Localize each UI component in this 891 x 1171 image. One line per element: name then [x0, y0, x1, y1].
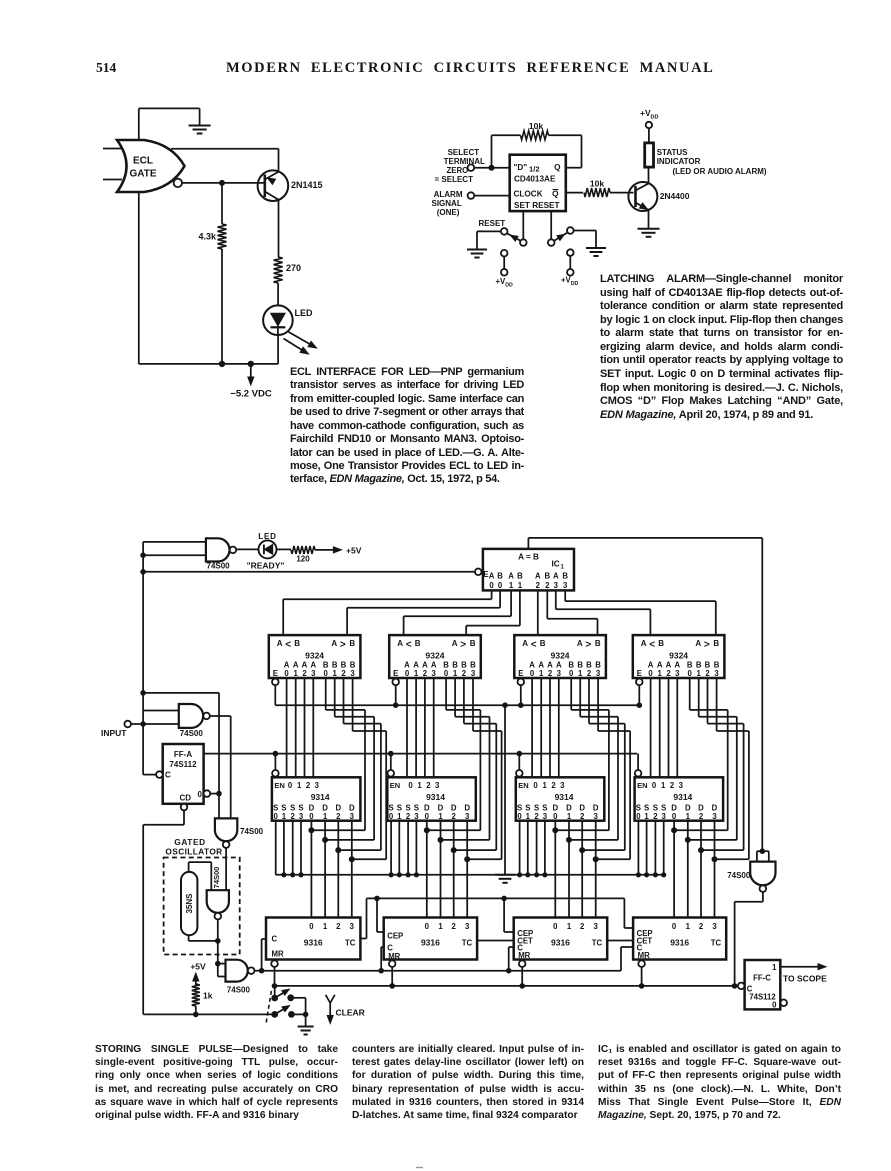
svg-text:A: A: [284, 660, 290, 669]
svg-text:A: A: [577, 639, 583, 648]
svg-text:LED: LED: [258, 532, 276, 541]
svg-text:B: B: [294, 639, 300, 648]
svg-text:0: 0: [569, 669, 574, 678]
svg-text:B: B: [341, 660, 347, 669]
svg-text:1: 1: [417, 781, 422, 790]
svg-text:MR: MR: [638, 951, 650, 960]
svg-text:9314: 9314: [311, 792, 330, 802]
svg-text:A: A: [657, 660, 663, 669]
svg-text:0: 0: [652, 781, 657, 790]
svg-text:SIGNAL: SIGNAL: [432, 199, 462, 208]
svg-text:E: E: [637, 669, 642, 678]
svg-text:<: <: [406, 640, 412, 651]
svg-text:A: A: [293, 660, 299, 669]
svg-text:CEP: CEP: [387, 932, 403, 941]
svg-text:+V: +V: [640, 108, 651, 118]
svg-text:"READY": "READY": [247, 560, 285, 570]
svg-text:1: 1: [282, 812, 287, 821]
svg-text:0: 0: [425, 812, 430, 821]
svg-text:3: 3: [471, 669, 476, 678]
svg-text:FF-C: FF-C: [753, 974, 771, 983]
svg-text:1: 1: [294, 669, 299, 678]
svg-text:A: A: [431, 660, 437, 669]
svg-text:B: B: [540, 639, 546, 648]
svg-text:GATED: GATED: [174, 837, 205, 847]
svg-text:0: 0: [533, 781, 538, 790]
svg-text:A: A: [529, 660, 535, 669]
svg-text:A: A: [508, 572, 514, 581]
svg-text:A: A: [489, 572, 495, 581]
svg-text:A: A: [695, 639, 701, 648]
svg-text:3: 3: [350, 922, 355, 931]
svg-text:MR: MR: [518, 951, 530, 960]
svg-text:2: 2: [551, 781, 556, 790]
svg-text:1: 1: [578, 669, 583, 678]
svg-text:EN: EN: [274, 781, 284, 790]
svg-text:2: 2: [406, 812, 411, 821]
svg-text:EN: EN: [390, 781, 400, 790]
svg-text:E: E: [518, 669, 523, 678]
svg-text:INPUT: INPUT: [101, 728, 127, 738]
svg-text:2: 2: [462, 669, 467, 678]
svg-text:A: A: [648, 660, 654, 669]
svg-text:2: 2: [302, 669, 307, 678]
svg-text:0: 0: [498, 581, 503, 590]
svg-text:A: A: [404, 660, 410, 669]
svg-text:CLEAR: CLEAR: [336, 1008, 365, 1018]
svg-text:LED: LED: [295, 308, 314, 318]
svg-text:9314: 9314: [426, 792, 445, 802]
svg-text:A: A: [277, 639, 283, 648]
svg-text:2: 2: [548, 669, 553, 678]
svg-text:0: 0: [284, 669, 289, 678]
svg-text:1: 1: [438, 812, 443, 821]
svg-text:FF-A: FF-A: [174, 750, 192, 759]
svg-text:270: 270: [286, 263, 301, 273]
svg-text:IC: IC: [552, 560, 560, 569]
svg-text:ZERO: ZERO: [447, 166, 469, 175]
svg-text:A: A: [553, 572, 559, 581]
svg-text:1: 1: [661, 781, 666, 790]
svg-text:(ONE): (ONE): [437, 208, 460, 217]
svg-text:B: B: [696, 660, 702, 669]
svg-text:1: 1: [297, 781, 302, 790]
svg-text:74S00: 74S00: [180, 729, 204, 738]
svg-text:A: A: [674, 660, 680, 669]
svg-text:C: C: [272, 935, 278, 944]
svg-text:= SELECT: = SELECT: [435, 175, 474, 184]
svg-text:TC: TC: [462, 939, 473, 948]
svg-text:9324: 9324: [551, 651, 570, 661]
svg-text:3: 3: [563, 581, 568, 590]
svg-text:B: B: [332, 660, 338, 669]
svg-text:0: 0: [309, 922, 314, 931]
svg-text:74S112: 74S112: [169, 760, 197, 769]
svg-text:STATUS: STATUS: [657, 148, 688, 157]
svg-text:B: B: [350, 660, 356, 669]
svg-text:SET RESET: SET RESET: [514, 201, 560, 210]
svg-text:1: 1: [772, 963, 777, 972]
svg-text:A: A: [538, 660, 544, 669]
svg-text:−5.2 VDC: −5.2 VDC: [230, 389, 272, 400]
svg-text:A: A: [535, 572, 541, 581]
svg-text:0: 0: [198, 790, 203, 799]
svg-text:1: 1: [567, 812, 572, 821]
svg-text:B: B: [497, 572, 503, 581]
svg-text:0: 0: [389, 812, 394, 821]
svg-text:A: A: [452, 639, 458, 648]
svg-text:2N1415: 2N1415: [291, 180, 323, 190]
svg-text:0: 0: [405, 669, 410, 678]
svg-text:A: A: [522, 639, 528, 648]
svg-text:0: 0: [772, 1001, 777, 1010]
svg-text:3: 3: [311, 669, 316, 678]
svg-text:B: B: [517, 572, 523, 581]
svg-text:TC: TC: [345, 939, 356, 948]
svg-text:2: 2: [653, 812, 658, 821]
svg-text:B: B: [470, 660, 476, 669]
svg-text:9316: 9316: [421, 938, 440, 948]
svg-text:B: B: [568, 660, 574, 669]
svg-text:120: 120: [296, 555, 310, 564]
svg-text:>: >: [340, 640, 346, 651]
svg-text:0: 0: [408, 781, 413, 790]
svg-text:9314: 9314: [673, 792, 692, 802]
svg-text:GATE: GATE: [129, 169, 156, 180]
svg-text:3: 3: [465, 812, 470, 821]
svg-text:0: 0: [425, 922, 430, 931]
svg-text:3: 3: [712, 922, 717, 931]
svg-text:Q: Q: [554, 163, 561, 172]
svg-text:1: 1: [509, 581, 514, 590]
svg-text:1: 1: [518, 581, 523, 590]
svg-text:3: 3: [315, 781, 320, 790]
svg-text:B: B: [595, 639, 601, 648]
svg-text:Q: Q: [552, 190, 559, 199]
svg-text:+5V: +5V: [346, 546, 362, 556]
svg-text:74S00: 74S00: [212, 867, 221, 889]
svg-text:DD: DD: [505, 282, 513, 288]
svg-text:TO SCOPE: TO SCOPE: [783, 974, 827, 984]
svg-text:2: 2: [306, 781, 311, 790]
svg-text:1k: 1k: [203, 991, 213, 1001]
svg-text:1: 1: [644, 812, 649, 821]
svg-text:B: B: [452, 660, 458, 669]
svg-text:9316: 9316: [670, 938, 689, 948]
svg-text:2: 2: [534, 812, 539, 821]
svg-text:A: A: [556, 660, 562, 669]
svg-text:1: 1: [323, 922, 328, 931]
svg-text:B: B: [687, 660, 693, 669]
svg-text:10k: 10k: [529, 121, 543, 131]
svg-text:1: 1: [333, 669, 338, 678]
svg-text:3: 3: [435, 781, 440, 790]
svg-text:A: A: [422, 660, 428, 669]
svg-text:B: B: [658, 639, 664, 648]
svg-text:2: 2: [580, 922, 585, 931]
svg-text:2: 2: [587, 669, 592, 678]
svg-text:9324: 9324: [426, 651, 445, 661]
svg-text:B: B: [470, 639, 476, 648]
svg-text:2: 2: [580, 812, 585, 821]
svg-text:A: A: [413, 660, 419, 669]
svg-text:E: E: [273, 669, 278, 678]
svg-text:<: <: [531, 640, 537, 651]
svg-text:2: 2: [336, 812, 341, 821]
svg-text:1: 1: [567, 922, 572, 931]
svg-text:2: 2: [291, 812, 296, 821]
svg-text:<: <: [285, 640, 291, 651]
svg-text:2: 2: [423, 669, 428, 678]
svg-text:A: A: [397, 639, 403, 648]
svg-text:3: 3: [712, 812, 717, 821]
svg-text:B: B: [586, 660, 592, 669]
svg-text:1: 1: [686, 922, 691, 931]
svg-text:0: 0: [688, 669, 693, 678]
svg-text:A: A: [302, 660, 308, 669]
svg-text:0: 0: [553, 922, 558, 931]
svg-text:B: B: [595, 660, 601, 669]
svg-text:9314: 9314: [555, 792, 574, 802]
svg-text:3: 3: [675, 669, 680, 678]
svg-text:3: 3: [557, 669, 562, 678]
svg-text:0: 0: [324, 669, 329, 678]
svg-text:TC: TC: [711, 939, 722, 948]
svg-text:1: 1: [323, 812, 328, 821]
svg-text:EN: EN: [518, 781, 528, 790]
svg-text:0: 0: [489, 581, 494, 590]
svg-text:1: 1: [453, 669, 458, 678]
svg-text:A: A: [666, 660, 672, 669]
svg-text:3: 3: [432, 669, 437, 678]
svg-text:TERMINAL: TERMINAL: [444, 157, 485, 166]
svg-text:>: >: [460, 640, 466, 651]
svg-text:>: >: [704, 640, 710, 651]
svg-text:B: B: [323, 660, 329, 669]
svg-text:3: 3: [662, 812, 667, 821]
svg-text:A: A: [310, 660, 316, 669]
svg-text:2: 2: [670, 781, 675, 790]
svg-text:RESET: RESET: [479, 219, 506, 228]
svg-text:3: 3: [594, 922, 599, 931]
svg-text:0: 0: [288, 781, 293, 790]
svg-text:B: B: [714, 660, 720, 669]
svg-text:74S00: 74S00: [727, 871, 751, 880]
svg-text:B: B: [415, 639, 421, 648]
svg-text:2N4400: 2N4400: [660, 191, 690, 201]
svg-text:1: 1: [397, 812, 402, 821]
svg-text:SELECT: SELECT: [448, 148, 480, 157]
svg-text:1/2: 1/2: [529, 165, 540, 174]
svg-text:B: B: [544, 572, 550, 581]
svg-text:ALARM: ALARM: [434, 190, 463, 199]
svg-text:B: B: [461, 660, 467, 669]
svg-text:0: 0: [672, 922, 677, 931]
svg-text:ECL: ECL: [133, 156, 153, 167]
svg-text:3: 3: [679, 781, 684, 790]
svg-text:INDICATOR: INDICATOR: [657, 157, 701, 166]
svg-text:2: 2: [341, 669, 346, 678]
svg-text:3: 3: [299, 812, 304, 821]
svg-text:2: 2: [699, 812, 704, 821]
svg-text:CD4013AE: CD4013AE: [514, 175, 556, 184]
svg-text:B: B: [577, 660, 583, 669]
svg-text:B: B: [349, 639, 355, 648]
svg-text:<: <: [649, 640, 655, 651]
svg-text:74S00: 74S00: [227, 986, 251, 995]
svg-text:0: 0: [309, 812, 314, 821]
svg-text:0: 0: [672, 812, 677, 821]
svg-text:1: 1: [561, 565, 565, 571]
svg-text:74S00: 74S00: [240, 827, 264, 836]
svg-text:MR: MR: [272, 950, 284, 959]
svg-text:3: 3: [554, 581, 559, 590]
svg-text:CD: CD: [180, 793, 192, 802]
svg-text:C: C: [165, 771, 171, 780]
svg-text:3: 3: [596, 669, 601, 678]
svg-text:1: 1: [543, 781, 548, 790]
svg-text:CLOCK: CLOCK: [514, 190, 543, 199]
svg-text:2: 2: [705, 669, 710, 678]
svg-text:0: 0: [444, 669, 449, 678]
svg-text:TC: TC: [592, 939, 603, 948]
svg-text:3: 3: [543, 812, 548, 821]
svg-text:35NS: 35NS: [185, 893, 194, 914]
svg-text:B: B: [562, 572, 568, 581]
svg-text:2: 2: [699, 922, 704, 931]
svg-text:3: 3: [560, 781, 565, 790]
svg-text:A: A: [331, 639, 337, 648]
svg-text:9316: 9316: [304, 938, 323, 948]
svg-text:1: 1: [658, 669, 663, 678]
svg-text:2: 2: [536, 581, 541, 590]
svg-text:B: B: [713, 639, 719, 648]
svg-text:0: 0: [553, 812, 558, 821]
svg-text:2: 2: [426, 781, 431, 790]
svg-text:2: 2: [452, 922, 457, 931]
svg-text:3: 3: [465, 922, 470, 931]
svg-text:+5V: +5V: [190, 962, 206, 972]
svg-text:OSCILLATOR: OSCILLATOR: [165, 847, 222, 857]
svg-text:A: A: [547, 660, 553, 669]
svg-text:9316: 9316: [551, 938, 570, 948]
svg-text:3: 3: [594, 812, 599, 821]
svg-text:>: >: [585, 640, 591, 651]
svg-text:DD: DD: [651, 115, 659, 121]
svg-text:2: 2: [545, 581, 550, 590]
svg-text:1: 1: [686, 812, 691, 821]
svg-text:B: B: [705, 660, 711, 669]
svg-text:DD: DD: [571, 281, 579, 287]
svg-text:2: 2: [452, 812, 457, 821]
svg-text:3: 3: [414, 812, 419, 821]
svg-text:1: 1: [539, 669, 544, 678]
svg-text:74S00: 74S00: [207, 562, 231, 571]
svg-text:9324: 9324: [305, 651, 324, 661]
svg-text:A: A: [641, 639, 647, 648]
svg-text:(LED OR AUDIO ALARM): (LED OR AUDIO ALARM): [673, 167, 767, 176]
svg-text:3: 3: [350, 669, 355, 678]
svg-text:4.3k: 4.3k: [198, 232, 217, 242]
svg-text:3: 3: [350, 812, 355, 821]
svg-text:10k: 10k: [590, 179, 604, 189]
svg-text:2: 2: [666, 669, 671, 678]
svg-text:0: 0: [517, 812, 522, 821]
svg-text:0: 0: [274, 812, 279, 821]
svg-text:1: 1: [526, 812, 531, 821]
svg-text:0: 0: [636, 812, 641, 821]
svg-text:B: B: [443, 660, 449, 669]
svg-text:1: 1: [438, 922, 443, 931]
svg-text:3: 3: [714, 669, 719, 678]
svg-text:1: 1: [414, 669, 419, 678]
svg-text:0: 0: [530, 669, 535, 678]
svg-text:1: 1: [697, 669, 702, 678]
svg-text:E: E: [393, 669, 398, 678]
svg-text:A = B: A = B: [518, 553, 539, 562]
svg-text:MR: MR: [388, 952, 400, 961]
svg-text:2: 2: [336, 922, 341, 931]
svg-text:0: 0: [648, 669, 653, 678]
svg-text:9324: 9324: [669, 651, 688, 661]
svg-text:EN: EN: [637, 781, 647, 790]
svg-text:"D": "D": [514, 163, 528, 172]
